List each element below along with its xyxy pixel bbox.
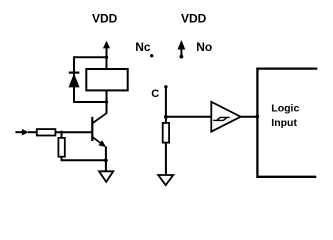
- Nc contact dot: [150, 54, 153, 57]
- wire: coil bottom to collector: [106, 90, 108, 113]
- resistor R3 (pulldown on C): [163, 123, 169, 143]
- svg-text:Input: Input: [271, 117, 297, 129]
- Logic Input label: [271, 103, 299, 129]
- wire: R1 to base: [55, 131, 92, 133]
- junction dot (base wire / pulldown): [60, 131, 63, 134]
- svg-text:No: No: [196, 40, 212, 54]
- input arrow: [15, 129, 28, 136]
- transistor Q1 collector: [93, 113, 107, 123]
- junction dot (diode branch / collector): [105, 100, 108, 103]
- wire: R3 to ground: [165, 143, 167, 176]
- wire: input arrow to R1: [28, 131, 37, 133]
- diode D1: [69, 73, 80, 87]
- C terminal dot: [164, 85, 167, 88]
- wire: pulldown stub: [61, 132, 63, 138]
- svg-text:VDD: VDD: [92, 12, 118, 26]
- resistor R1 (base series): [37, 129, 56, 135]
- junction dot (C node): [164, 115, 168, 119]
- junction dot (logic box input): [255, 115, 259, 119]
- junction dot (emitter / pulldown): [104, 158, 108, 162]
- ground (C pulldown): [158, 175, 173, 185]
- wire: emitter to ground: [105, 147, 107, 172]
- schmitt buffer U1: [211, 102, 240, 132]
- svg-text:VDD: VDD: [181, 12, 207, 26]
- svg-text:Logic: Logic: [271, 103, 299, 115]
- relay coil: [86, 69, 127, 90]
- wire: pulldown resistor bottom link: [62, 157, 106, 161]
- wire: junction to R3: [165, 117, 167, 123]
- wire: diode branch bottom: [74, 101, 107, 103]
- svg-text:Nc: Nc: [135, 40, 151, 54]
- wire: junction to buffer input: [166, 116, 211, 118]
- svg-text:C: C: [151, 88, 159, 100]
- wire: diode branch left: [73, 56, 75, 103]
- No arrow to VDD: [178, 40, 186, 58]
- VDD arrow (relay supply): [103, 41, 110, 70]
- wire: buffer output to logic box: [241, 116, 258, 118]
- wire: C terminal down to junction: [165, 87, 167, 117]
- resistor R2 (base pulldown): [58, 138, 64, 157]
- ground (transistor emitter): [99, 171, 113, 182]
- diode D1 cathode bar: [69, 71, 80, 73]
- transistor Q1 emitter: [93, 137, 106, 147]
- hysteresis symbol: [213, 117, 229, 120]
- junction dot (VDD stem / diode branch): [105, 56, 108, 59]
- wire: diode branch top: [74, 56, 107, 58]
- logic input box: [257, 69, 317, 177]
- transistor Q1 base bar: [91, 117, 93, 141]
